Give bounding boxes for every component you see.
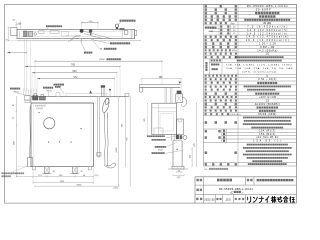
- top view: inner detail lines: [19, 29, 21, 38]
- side view: arm right triangle: [179, 82, 182, 84]
- gas consumption sub-row: [220, 29, 229, 31]
- top view: right step: [135, 30, 137, 35]
- side view: L bracket: [172, 141, 174, 167]
- svg-text:1.0: 1.0: [266, 53, 270, 56]
- side view: bracket neck: [171, 135, 173, 141]
- svg-text:20-65RF: 20-65RF: [256, 9, 271, 12]
- company glyph: [259, 197, 264, 203]
- svg-text:14.5 (12,470kcal/h): 14.5 (12,470kcal/h): [246, 37, 288, 39]
- front view: bottom-left note: [2, 172, 25, 174]
- svg-text:o12.7mm 3P-3C: o12.7mm 3P-3C: [256, 137, 278, 139]
- company glyph: [290, 197, 295, 203]
- extension lines to front view: [23, 39, 25, 92]
- dim 603: [32, 72, 117, 74]
- svg-text:(R1/2): (R1/2): [47, 90, 52, 92]
- table row: power supply: [205, 103, 237, 105]
- bottom overall dim: [35, 185, 119, 187]
- title: drawing name: [217, 179, 232, 182]
- svg-text:603: 603: [73, 70, 78, 73]
- usable gas block: 3 lines: [211, 64, 219, 66]
- svg-text:(R1/2): (R1/2): [158, 150, 163, 152]
- front view: pilot window circle: [44, 118, 55, 129]
- top view: second port: [89, 29, 92, 32]
- shower: hanger bar: [98, 97, 100, 157]
- shower: vertical dim hose: [118, 97, 120, 185]
- dim (1200) overall: [35, 60, 162, 62]
- company glyph: [271, 196, 276, 202]
- table block: water pressure 2-line: [205, 86, 237, 88]
- company glyph: [265, 197, 268, 203]
- front view: inner top labels: [35, 105, 46, 107]
- front view: feet: [45, 167, 50, 174]
- side view: left rotated dim: [147, 103, 149, 134]
- gas consumption sub-row: [220, 25, 229, 27]
- side view: arm left hook: [140, 84, 143, 92]
- top view: shower hook label: [120, 20, 136, 22]
- shower: head: [101, 97, 110, 118]
- top view: circulation port circle: [80, 29, 84, 33]
- top view: left protrusion: [11, 27, 17, 35]
- top view: left internals: [24, 31, 28, 37]
- svg-text:14.0 (12,040kcal/h): 14.0 (12,040kcal/h): [247, 33, 287, 35]
- title block frame: [195, 176, 297, 178]
- table row: extra: [205, 106, 237, 108]
- svg-text:(kg): (kg): [231, 23, 235, 25]
- piping sub-row: [223, 136, 225, 138]
- top marker triangle: [89, 90, 92, 93]
- front view: top cover line: [31, 96, 128, 98]
- side view: air vent circle: [183, 136, 187, 140]
- front view: water inlet labels: [10, 88, 20, 90]
- shower: hose: [104, 118, 107, 166]
- bottom extension lines: [32, 167, 34, 184]
- svg-text:30: 30: [80, 171, 82, 173]
- table block: safety devices: [205, 121, 237, 124]
- front view: inner screws: [48, 142, 49, 143]
- top view: body band: [17, 29, 135, 38]
- svg-text:(C: (C: [230, 191, 233, 194]
- side view: top arm: [140, 83, 181, 85]
- piping sub-row: [223, 140, 225, 142]
- svg-text:=(55): =(55): [113, 188, 118, 190]
- svg-text:20A, 21A, 24A, 25A, 26B, 2H, 3: 20A, 21A, 24A, 25A, 26B, 2H, 3H, 5AN: [226, 67, 292, 70]
- company glyph: [253, 197, 257, 202]
- front view: top components: [66, 92, 106, 94]
- top view: wall line: [17, 40, 141, 42]
- top view: exhaust label: [84, 52, 92, 54]
- svg-text:20 (44): 20 (44): [263, 22, 271, 25]
- table row: supply pressure: [205, 78, 237, 80]
- title: model label: [196, 189, 202, 192]
- gas consumption sub-row: [220, 32, 229, 34]
- front view: bottom dims: [17, 176, 94, 178]
- svg-text:30: 30: [178, 171, 180, 173]
- table row: control: [205, 92, 237, 94]
- dim 765: [25, 65, 120, 67]
- title: date cells: [196, 198, 202, 200]
- svg-text:(605): (605): [77, 185, 82, 187]
- svg-text:605: 605: [122, 124, 124, 127]
- top view: drain stub below band: [81, 39, 83, 42]
- side view: leader labels: [147, 135, 165, 137]
- front view: left stubs: [25, 96, 31, 101]
- table row: freeze protection: [205, 110, 237, 112]
- usable gas row 1: [205, 56, 237, 58]
- front view: left vertical dim: [16, 97, 18, 177]
- table row: applicable group: [205, 75, 237, 77]
- side view: right vertical dims: [191, 148, 193, 166]
- front view: main cabinet: [31, 103, 94, 167]
- table row: installation: [205, 15, 237, 17]
- title: product name: [257, 179, 294, 181]
- table group: piping label: [205, 130, 221, 133]
- table group: usable gas: [205, 62, 207, 71]
- svg-text:15A (R1/2): 15A (R1/2): [259, 129, 275, 132]
- top view: shower hose coil in plan: [70, 36, 80, 40]
- table group sub-dividers: [218, 25, 220, 35]
- shower bar top fitting: [102, 86, 104, 97]
- svg-text:1/2.5: 1/2.5: [225, 200, 231, 202]
- cover right bracket: [125, 94, 129, 97]
- top view: air vent label: [46, 25, 62, 27]
- table row: rate: [205, 99, 237, 101]
- company glyph: [277, 197, 282, 202]
- shower: vertical dim 670: [129, 97, 131, 186]
- table row: power consumption: [205, 113, 229, 115]
- svg-text:14.0 (12,040kcal/h): 14.0 (12,040kcal/h): [247, 30, 287, 32]
- table row: type: [205, 12, 237, 14]
- svg-text:RF-650RF-HB6-L-OCA1: RF-650RF-HB6-L-OCA1: [219, 187, 254, 191]
- side view: bottom dims: [177, 171, 182, 173]
- usable gas row 2: [211, 59, 221, 61]
- svg-text:(kPa): (kPa): [232, 50, 237, 52]
- spec table grid: [204, 4, 297, 6]
- svg-text:96/96 (30W): 96/96 (30W): [258, 113, 276, 116]
- table row: water pressure: [205, 46, 237, 48]
- company glyph: [284, 196, 288, 202]
- table row: accessories: [205, 163, 237, 165]
- svg-text:W(50/60Hz): W(50/60Hz): [228, 114, 241, 116]
- svg-text:15A (R1/2): 15A (R1/2): [259, 133, 275, 136]
- table row: model: [205, 5, 237, 7]
- side view: holder: [177, 91, 182, 94]
- svg-text:7.5 (6,450kcal/h): 7.5 (6,450kcal/h): [247, 26, 287, 28]
- top view: exhaust diagonal pipe: [84, 31, 111, 38]
- top view: label flame-out cover: [110, 42, 130, 44]
- top view: left vertical dim: [7, 27, 9, 40]
- svg-text:(1523): (1523): [116, 147, 118, 153]
- svg-text:0.5k ~ 10(2): 0.5k ~ 10(2): [258, 79, 276, 81]
- table row: connections: [205, 96, 237, 98]
- svg-text:765: 765: [71, 64, 76, 67]
- piping sub-row: [223, 133, 225, 135]
- svg-text:(75): (75): [177, 177, 181, 179]
- shower: bar bracket: [97, 153, 101, 157]
- table block: remarks: [205, 151, 237, 154]
- front view: internal down pipe: [29, 106, 31, 158]
- svg-text:20: 20: [5, 39, 7, 41]
- svg-text:(15): (15): [95, 175, 99, 177]
- table row: ignition: [205, 19, 237, 21]
- shower: spray handle at hose end: [106, 163, 116, 168]
- table row: thermo: [205, 82, 237, 84]
- short wall dim: [7, 52, 27, 54]
- svg-text:50: 50: [12, 105, 14, 107]
- side view: connecting pipes: [164, 87, 166, 103]
- extension lines for dim stack: [34, 60, 36, 97]
- table row: capacity kW: [205, 39, 237, 41]
- table group: gas consumption label: [205, 27, 217, 29]
- shower: vertical dim 600: [124, 97, 126, 167]
- front view: inlet fittings: [33, 96, 39, 100]
- svg-text:%1:: %1:: [204, 169, 208, 171]
- svg-text:(1200: (1200: [99, 59, 105, 61]
- front view: top pipe verticals: [22, 89, 24, 96]
- table row: model name: [205, 8, 237, 10]
- table row: output number: [205, 42, 237, 44]
- svg-text:(15): (15): [190, 155, 192, 159]
- svg-text:(LPG, i4,500kcal/kg): (LPG, i4,500kcal/kg): [242, 71, 276, 73]
- side view: cord and gas fittings: [176, 135, 179, 139]
- svg-text:12A, 13A, L1(B6), L1(7), L2(6B: 12A, 13A, L1(B6), L1(7), L2(6B), L3(8C): [226, 64, 292, 67]
- table row: flow: [205, 53, 237, 55]
- svg-text:30: 30: [52, 171, 54, 173]
- top view: shower hook stem and knob: [115, 24, 118, 27]
- svg-text:(kW): (kW): [209, 31, 214, 33]
- table row: min pressure: [205, 49, 231, 51]
- title: name label: [196, 179, 202, 182]
- side view: right flue box: [177, 119, 184, 135]
- table row: total gas: [205, 36, 237, 38]
- svg-text:572: 572: [74, 76, 79, 79]
- piping sub-row: [223, 130, 225, 132]
- label bath connection: [54, 84, 65, 86]
- table row: weight: [205, 22, 227, 24]
- dim 572: [37, 78, 114, 80]
- svg-text:2022.05: 2022.05: [204, 199, 215, 202]
- side view: main body: [152, 103, 177, 134]
- drawing frame: [5, 5, 297, 204]
- side view: top dim 350: [141, 78, 181, 80]
- svg-text:670: 670: [194, 143, 196, 146]
- top view: right end block: [124, 31, 128, 35]
- company glyph: [248, 197, 251, 203]
- svg-text:AC100V (50/60Hz): AC100V (50/60Hz): [255, 103, 280, 106]
- title: hinmei label: [247, 179, 253, 182]
- svg-text:55: 55: [12, 117, 14, 119]
